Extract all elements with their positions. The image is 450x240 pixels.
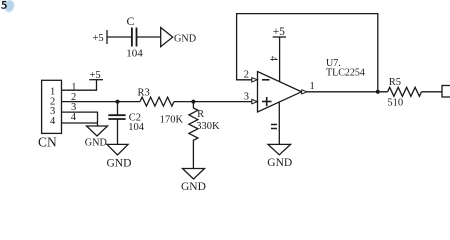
svg-text:170K: 170K: [160, 114, 184, 125]
power +5 symbol (decoupling cap input): [106, 30, 108, 44]
op-amp minus sign: [262, 79, 270, 81]
resistor R 330K: [189, 102, 198, 145]
svg-text:4: 4: [71, 112, 77, 123]
wire R to ground: [192, 145, 194, 169]
junction node R: [191, 100, 195, 104]
svg-text:+5: +5: [93, 33, 104, 44]
wire C2 tap: [117, 102, 119, 116]
wire pin4: [62, 122, 98, 124]
svg-text:GND: GND: [174, 34, 196, 45]
wire R5 to connector: [422, 91, 443, 93]
ground (CN pins 3,4): [87, 126, 108, 136]
power +5 symbol (op-amp pin 4): [273, 36, 286, 38]
resistor R5: [388, 87, 422, 96]
svg-text:3: 3: [71, 102, 76, 113]
wire: [137, 36, 161, 38]
output arrow pin1: [302, 90, 307, 94]
resistor R3: [140, 97, 174, 106]
wire op-amp bottom to ground: [278, 102, 280, 144]
svg-text:1: 1: [310, 81, 315, 92]
wire pin1: [62, 80, 97, 91]
op-amp plus sign: [262, 101, 272, 103]
pin2 input arrow: [252, 78, 258, 82]
junction node output: [376, 90, 380, 94]
wire: [107, 36, 131, 38]
svg-text:510: 510: [387, 97, 403, 108]
wire output to R5: [307, 91, 388, 93]
svg-text:2: 2: [244, 70, 249, 81]
junction node C2: [116, 100, 120, 104]
connector CN body: [42, 80, 62, 133]
svg-text:C: C: [127, 14, 135, 28]
capacitor C2 plates: [108, 114, 125, 116]
svg-text:GND: GND: [107, 157, 132, 169]
svg-text:104: 104: [126, 48, 143, 60]
op-amp U7 triangle: [258, 72, 302, 113]
svg-text:R5: R5: [389, 77, 401, 88]
svg-text:4: 4: [267, 56, 278, 61]
svg-text:+5: +5: [90, 70, 101, 81]
svg-text:TLC2254: TLC2254: [326, 68, 365, 79]
svg-text:3: 3: [244, 91, 249, 102]
svg-text:R: R: [197, 109, 204, 120]
svg-text:GND: GND: [267, 157, 292, 169]
svg-text:330K: 330K: [196, 121, 220, 132]
wire: [117, 119, 119, 144]
ground (right-pointing): [161, 28, 173, 47]
capacitor C plates: [131, 28, 133, 47]
wire +5 to op-amp top: [279, 37, 281, 82]
wire node to op-amp pin3: [193, 101, 252, 103]
power +5 symbol (pin1): [89, 79, 103, 81]
pin 11 label marks: [271, 124, 277, 126]
ground (R 330K): [183, 169, 205, 180]
svg-text:R3: R3: [138, 87, 150, 98]
page number badge 5: [1, 0, 16, 14]
pin3 input arrow: [252, 99, 258, 103]
svg-text:CN: CN: [38, 134, 57, 149]
ground (C2): [107, 144, 128, 155]
ground (op-amp pin 11): [268, 144, 291, 154]
wire feedback from pin2: [237, 14, 378, 92]
output connector box: [442, 86, 450, 98]
svg-text:4: 4: [50, 116, 56, 127]
wire pin2 main net: [62, 101, 141, 103]
svg-text:GND: GND: [85, 138, 107, 149]
wire pin3: [62, 112, 98, 126]
svg-text:104: 104: [128, 122, 145, 133]
wire R3 to node: [174, 101, 193, 103]
svg-text:+5: +5: [273, 26, 285, 38]
svg-text:GND: GND: [181, 181, 206, 193]
